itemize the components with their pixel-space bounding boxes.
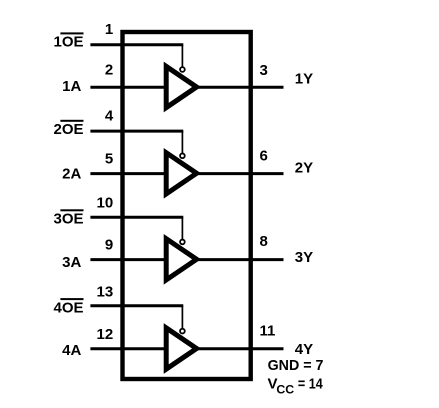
svg-text:12: 12 [97,326,114,343]
svg-text:2: 2 [105,62,113,79]
svg-text:VCC= 14: VCC= 14 [268,375,324,396]
svg-text:3: 3 [260,62,268,79]
svg-text:3OE: 3OE [53,211,83,228]
svg-text:6: 6 [260,147,268,164]
svg-text:4A: 4A [62,342,81,359]
svg-text:GND = 7: GND = 7 [268,357,324,374]
svg-text:1A: 1A [62,78,81,95]
svg-text:8: 8 [260,233,268,250]
svg-text:11: 11 [260,323,276,340]
svg-text:1: 1 [105,21,113,38]
svg-text:9: 9 [105,237,113,254]
svg-text:3Y: 3Y [295,249,313,266]
svg-text:10: 10 [97,195,114,212]
svg-text:1Y: 1Y [295,71,313,88]
svg-text:1OE: 1OE [53,34,83,51]
svg-text:2Y: 2Y [295,160,313,177]
svg-text:13: 13 [97,283,114,300]
svg-text:5: 5 [105,151,113,168]
svg-text:4: 4 [105,107,114,124]
svg-text:4OE: 4OE [53,299,83,316]
svg-text:2A: 2A [62,165,81,182]
svg-text:4Y: 4Y [295,341,313,358]
svg-text:2OE: 2OE [53,121,83,138]
svg-text:3A: 3A [62,254,81,271]
